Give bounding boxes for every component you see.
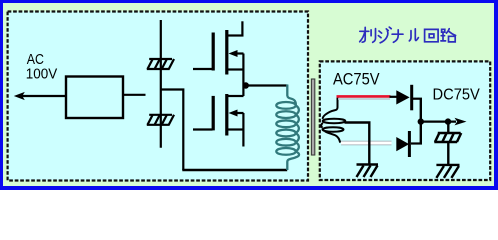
wire from box right [123, 94, 146, 96]
wire: center tap [345, 123, 370, 164]
wire: bend to lower bus [161, 90, 184, 171]
transformer T1 secondary winding [321, 97, 345, 143]
node A (junction dot) [243, 82, 249, 88]
glyph 回 [425, 29, 439, 41]
page background with blue frame [0, 0, 498, 190]
AC input arrow [22, 95, 66, 97]
wire: D2 out [411, 142, 422, 144]
transformer T1 primary winding [276, 85, 299, 171]
label オリジナル回路 (hand drawn glyphs) [360, 27, 456, 43]
wire: D1 out [413, 98, 422, 100]
glyph オ [360, 27, 369, 42]
glyph ナ [392, 30, 403, 43]
block U1 (rectifier box) [66, 77, 123, 119]
node B (junction dot) [418, 118, 424, 124]
dashed box: converter circuit (left) [8, 12, 308, 181]
node C (junction dot) [445, 118, 451, 124]
ground (center tap) [357, 165, 379, 178]
transistor Q1 (upper MOSFET) [193, 21, 244, 96]
glyph リ [371, 29, 375, 43]
svg-text:100V: 100V [26, 67, 58, 83]
wire: cap to node [447, 122, 449, 133]
wire: output vertical [420, 99, 422, 144]
diode D2 [396, 137, 409, 151]
wire: secondary bottom (white) [341, 141, 392, 146]
wire: cap to ground [447, 142, 449, 165]
diode D1 [396, 90, 409, 104]
glyph ジ [378, 27, 391, 43]
output arrow DC [455, 118, 467, 126]
transformer T1 core [311, 79, 314, 155]
wire: output [421, 120, 456, 122]
wire: vertical bus with capacitors [160, 20, 162, 148]
wire: to primary top [243, 84, 287, 86]
svg-text:AC75V: AC75V [333, 70, 380, 88]
ground (output) [436, 165, 459, 178]
transistor Q2 (lower MOSFET) [193, 94, 244, 147]
wire: secondary top (red) [338, 98, 390, 100]
dashed box: original circuit (right) [320, 61, 490, 180]
svg-text:DC75V: DC75V [433, 87, 481, 104]
glyph ル [409, 29, 418, 41]
glyph 路 [441, 29, 456, 42]
capacitor C1 (hatched) [147, 59, 174, 69]
capacitor C2 (hatched) [147, 115, 174, 125]
capacitor C3 (hatched) [434, 133, 461, 142]
wire: bottom return [182, 169, 287, 171]
